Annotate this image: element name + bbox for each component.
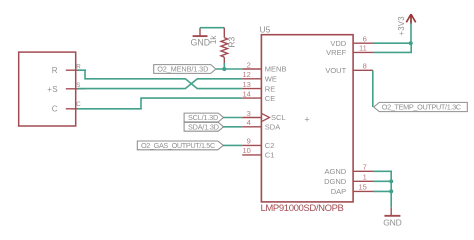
svg-text:6: 6 — [363, 35, 367, 44]
net label O2_TEMP_OUTPUT/1.3C — [374, 102, 468, 111]
ground symbol GND (bottom) — [383, 207, 401, 227]
svg-text:WE: WE — [265, 75, 277, 84]
svg-text:CE: CE — [265, 94, 275, 103]
net label SDA/1.3D — [184, 122, 223, 131]
svg-text:11: 11 — [359, 44, 367, 53]
wire SCL — [223, 117, 242, 119]
svg-text:DAP: DAP — [331, 187, 346, 196]
wire GND to R3 top — [200, 27, 224, 29]
svg-text:MENB: MENB — [265, 65, 287, 74]
svg-text:14: 14 — [242, 89, 250, 98]
svg-text:VREF: VREF — [326, 48, 346, 57]
sensor X1 body (O2 sensor box) — [19, 52, 76, 126]
svg-text:3: 3 — [247, 109, 251, 118]
svg-text:AGND: AGND — [325, 167, 347, 176]
svg-text:2: 2 — [247, 60, 251, 69]
net label O2_GAS_OUTPUT/1.5C — [137, 141, 223, 150]
pin 14 CE — [242, 89, 275, 102]
wire VDD to +3V3 node + junction — [373, 41, 413, 45]
svg-text:SDA: SDA — [265, 123, 280, 132]
svg-text:DGND: DGND — [324, 177, 347, 186]
power symbol +3V3 — [397, 14, 416, 35]
svg-text:1k: 1k — [208, 35, 218, 45]
pin 10 C1 — [242, 146, 274, 159]
wire VREF up to +3V3 node — [373, 43, 411, 52]
svg-text:+: + — [304, 115, 309, 125]
wire net S->WE (crosses up) — [78, 79, 242, 89]
svg-text:1: 1 — [363, 173, 367, 182]
svg-text:SCL: SCL — [271, 113, 286, 122]
svg-text:GND: GND — [383, 217, 401, 227]
wire O2_GAS_OUTPUT — [223, 144, 242, 146]
pin 13 RE — [242, 80, 275, 93]
svg-text:+3V3: +3V3 — [397, 16, 406, 35]
pin 15 DAP — [331, 183, 373, 196]
svg-text:C2: C2 — [265, 141, 275, 150]
pin 11 VREF — [326, 44, 373, 57]
pin 9 C2 — [242, 137, 274, 150]
pin 3 SCL with clock mark — [242, 109, 285, 122]
svg-text:8: 8 — [363, 62, 367, 71]
svg-text:4: 4 — [247, 118, 251, 127]
ground symbol GND (top, for R3) — [191, 28, 211, 48]
wire node to +3V3 arrow — [410, 16, 412, 43]
wire net C->CE (steps up) — [78, 98, 242, 109]
svg-text:10: 10 — [242, 146, 250, 155]
svg-text:R: R — [52, 66, 58, 75]
sensor pin C — [66, 101, 86, 109]
svg-text:R3: R3 — [227, 37, 237, 48]
value label LMP91000SD/NOPB — [261, 203, 344, 214]
sensor pin R — [66, 64, 86, 71]
svg-text:O2_GAS_OUTPUT/1.5C: O2_GAS_OUTPUT/1.5C — [141, 141, 215, 150]
sensor pin S — [66, 82, 86, 89]
svg-text:12: 12 — [242, 70, 250, 79]
svg-text:U5: U5 — [260, 24, 271, 34]
wire SDA — [223, 126, 242, 128]
net label O2_MENB/1.3D — [154, 65, 216, 74]
pin 12 WE — [242, 70, 277, 83]
svg-text:O2_MENB/1.3D: O2_MENB/1.3D — [157, 65, 208, 74]
svg-text:7: 7 — [363, 163, 367, 172]
wire DGND + junction — [373, 179, 393, 183]
pin 1 DGND — [324, 173, 373, 186]
wire net R->RE (steps down, crosses) — [78, 70, 242, 88]
wire AGND down the ground rail — [373, 171, 391, 207]
svg-text:RE: RE — [265, 84, 275, 93]
resistor R3 1k — [208, 28, 237, 63]
op IC U5 body — [260, 24, 354, 202]
pin 2 MENB — [242, 60, 286, 73]
svg-text:LMP91000SD/NOPB: LMP91000SD/NOPB — [261, 203, 344, 214]
pin 8 VOUT — [325, 62, 373, 75]
svg-text:SDA/1.3D: SDA/1.3D — [188, 122, 219, 131]
svg-text:C: C — [76, 101, 81, 108]
svg-text:SCL/1.3D: SCL/1.3D — [188, 113, 218, 122]
net label SCL/1.3D — [184, 113, 223, 122]
svg-text:9: 9 — [247, 137, 251, 146]
svg-text:VOUT: VOUT — [325, 66, 346, 75]
svg-text:15: 15 — [358, 183, 366, 192]
pin 4 SDA — [242, 118, 280, 131]
svg-text:C: C — [52, 105, 58, 114]
wire R3 bottom to MENB net + junction — [216, 63, 242, 71]
svg-text:+S: +S — [47, 85, 58, 94]
wire VOUT down to label — [372, 70, 374, 107]
pin 7 AGND — [325, 163, 373, 176]
svg-text:C1: C1 — [265, 151, 275, 160]
wire DAP + junction — [373, 189, 393, 193]
pin 6 VDD — [330, 35, 373, 48]
svg-text:O2_TEMP_OUTPUT/1.3C: O2_TEMP_OUTPUT/1.3C — [382, 103, 461, 112]
svg-text:13: 13 — [242, 80, 250, 89]
svg-text:VDD: VDD — [330, 39, 346, 48]
